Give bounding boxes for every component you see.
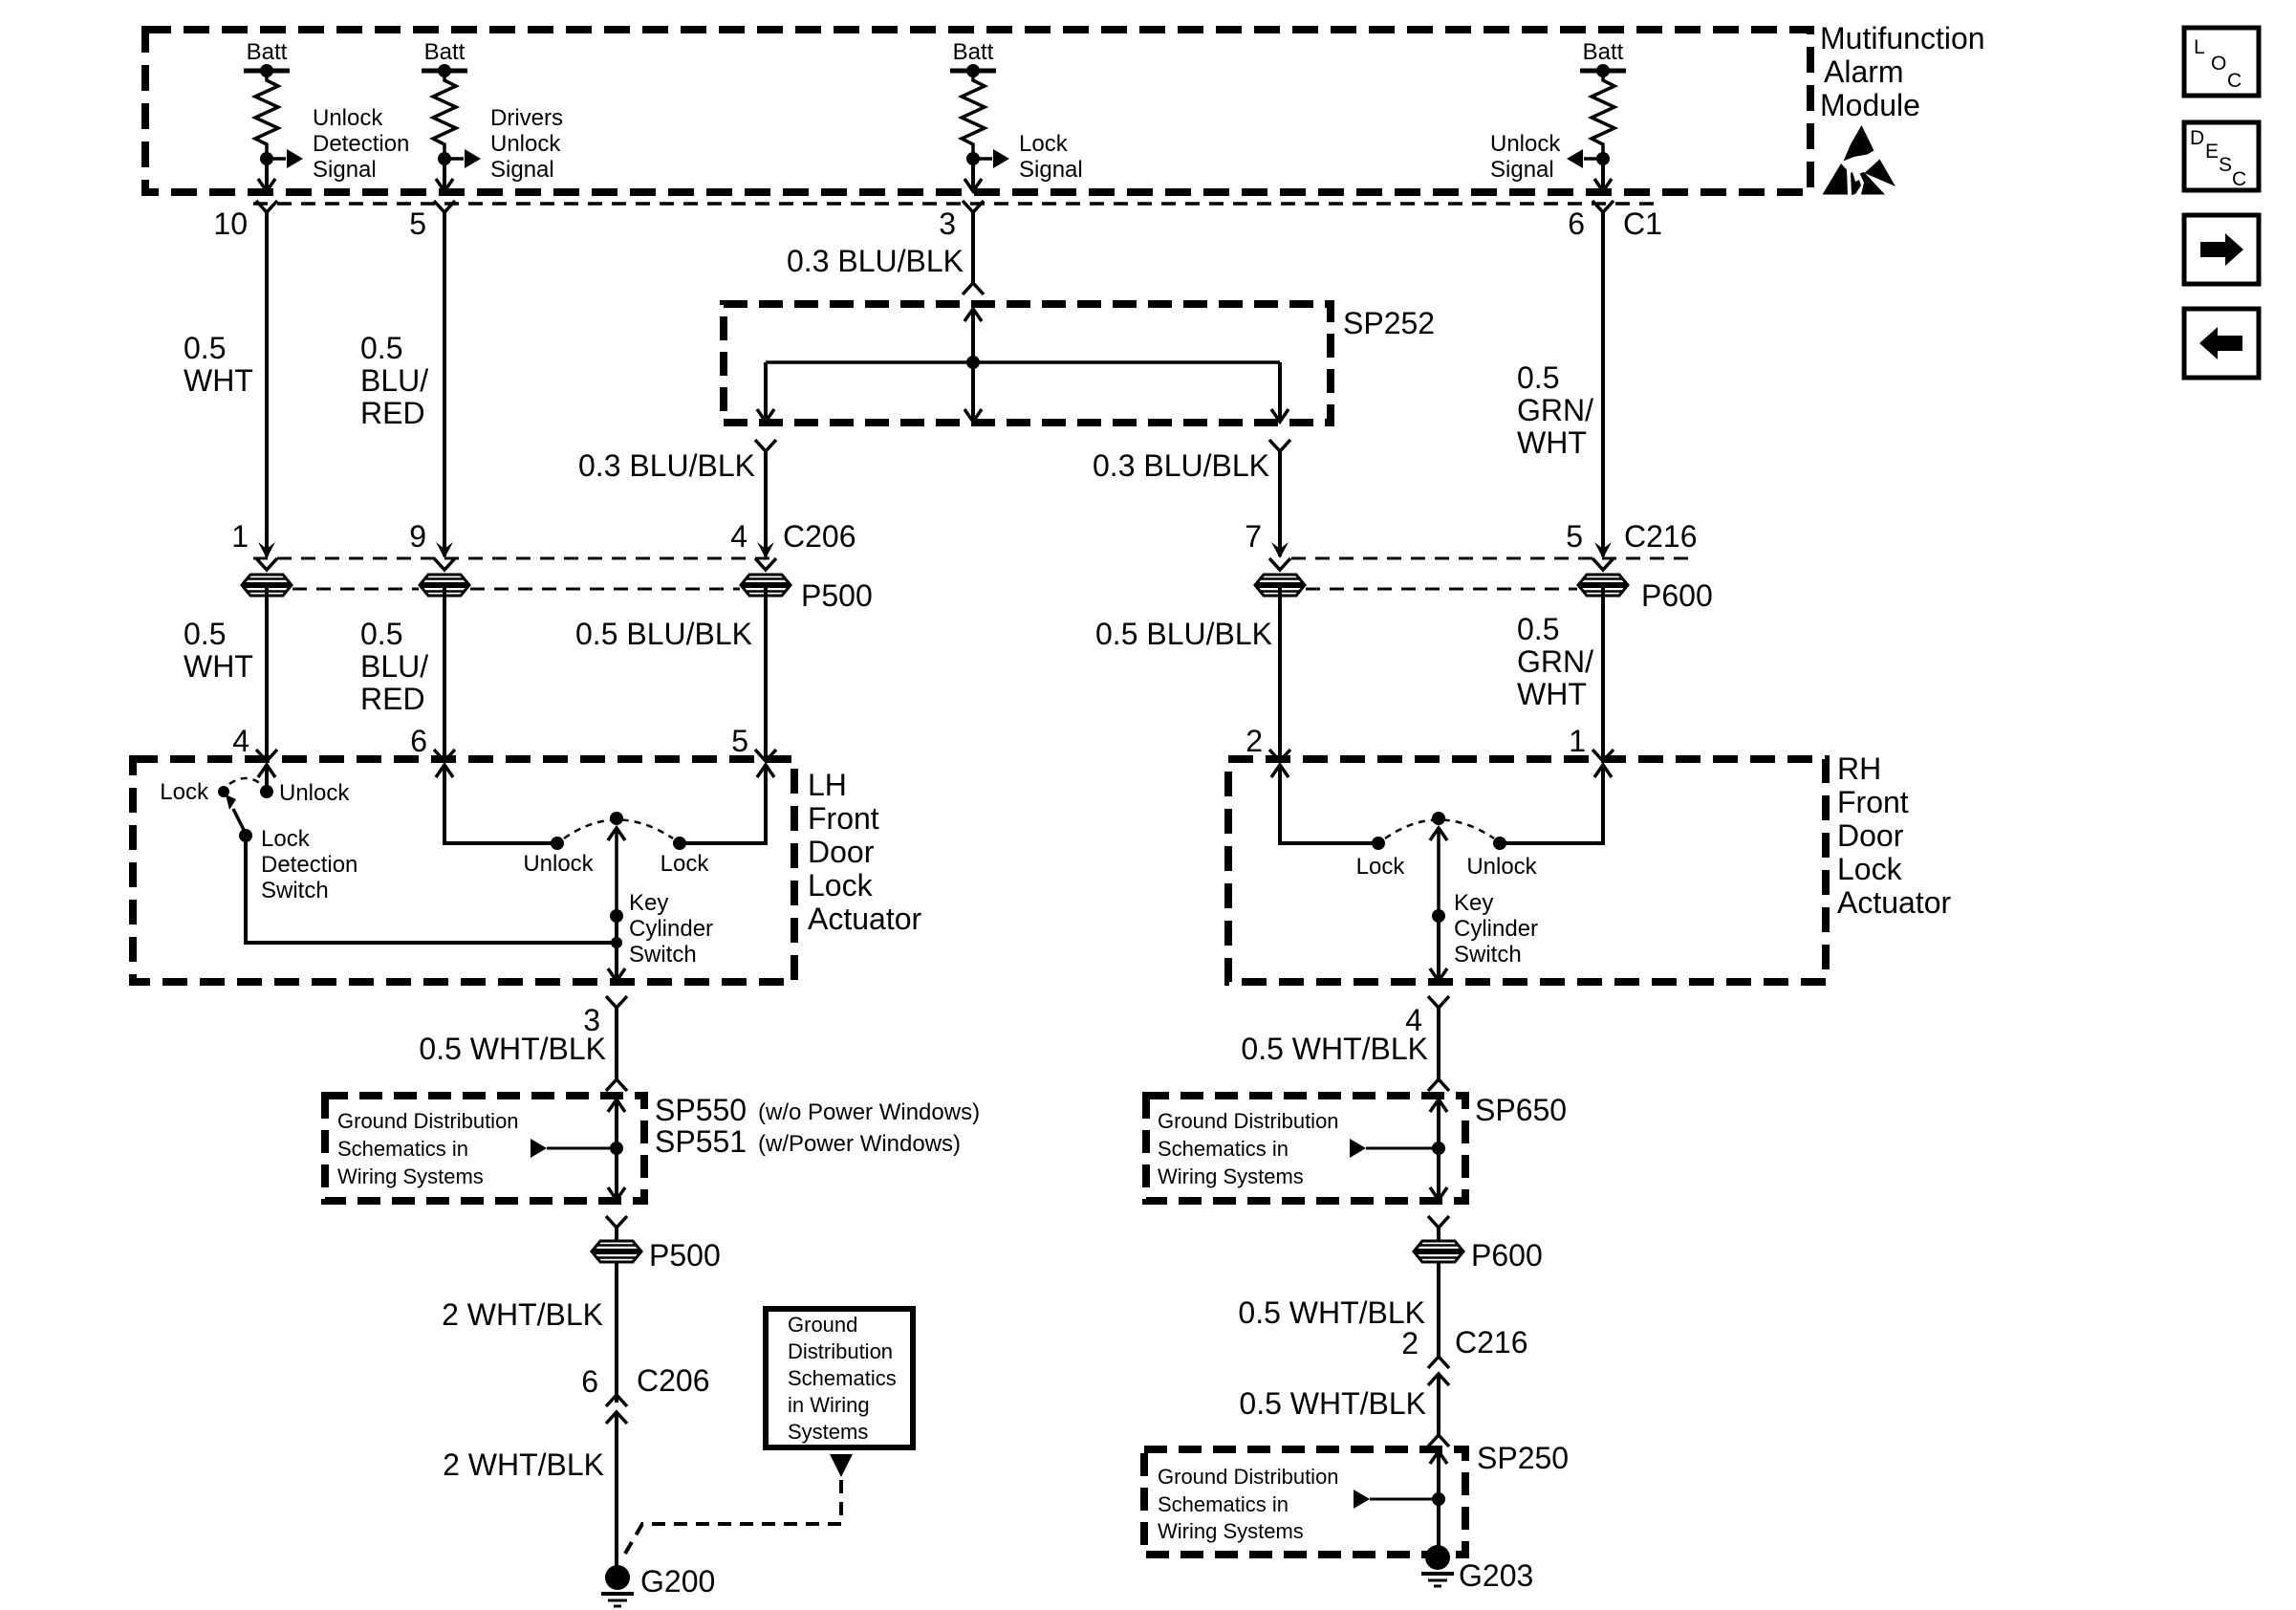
SP252 left branch wire [757,362,774,422]
svg-text:9: 9 [409,519,426,554]
svg-text:RED: RED [360,682,425,716]
LH pin3 chevron below actuator [606,996,627,1008]
svg-text:P600: P600 [1641,578,1713,613]
svg-text:Switch: Switch [629,942,697,968]
legend LOC box [2184,28,2259,96]
svg-text:C: C [2227,70,2242,92]
pin 5 chevron [434,201,455,212]
RH Front Door Lock Actuator box [1228,759,1826,982]
svg-text:2 WHT/BLK: 2 WHT/BLK [443,1447,604,1482]
svg-text:Signal: Signal [1019,157,1083,183]
svg-text:GRN/: GRN/ [1517,393,1593,427]
svg-text:G203: G203 [1459,1558,1533,1593]
Ground Distribution text (SP250 box) [1158,1465,1339,1543]
wire P600 to C216 (0.5 WHT/BLK) [1437,1262,1440,1357]
svg-text:10: 10 [213,207,248,241]
resistor (pull-up from Batt) [962,71,985,159]
LH unlock detection contact [260,785,273,798]
wire P500 to LH pin6 (0.5 BLU/RED) [443,585,446,761]
RH actuator pin 1 chevron [1592,750,1614,761]
svg-text:0.3 BLU/BLK: 0.3 BLU/BLK [787,244,964,278]
resistor (pull-up from Batt) [255,71,278,159]
P500 grommet dashed link [292,588,740,591]
svg-text:Signal: Signal [1490,157,1554,183]
svg-text:WHT: WHT [184,649,253,684]
svg-text:C206: C206 [783,519,856,554]
svg-text:SP250: SP250 [1477,1441,1569,1475]
svg-text:0.5 WHT/BLK: 0.5 WHT/BLK [1238,1295,1425,1330]
RH key cylinder pivot node [1432,909,1445,923]
connector C1 dashed line [253,202,1656,206]
svg-text:WHT: WHT [1517,677,1587,711]
Key Cylinder Switch label (RH) [1454,890,1538,968]
dashed reference branch to ground distribution [625,1480,841,1554]
svg-text:Ground Distribution: Ground Distribution [1158,1109,1339,1133]
svg-text:Door: Door [808,835,875,869]
LH key cylinder apex node [610,812,623,825]
Lock Detection Switch label [261,826,357,903]
svg-text:Schematics: Schematics [788,1366,897,1390]
svg-text:0.5: 0.5 [360,617,402,651]
svg-text:Lock: Lock [808,868,874,903]
svg-text:RH: RH [1837,751,1881,786]
SP550 junction node [610,1142,623,1155]
svg-text:Ground Distribution: Ground Distribution [1158,1465,1339,1489]
svg-text:Signal: Signal [490,157,554,183]
chevron below SP252 left [755,440,776,451]
svg-text:5: 5 [409,207,426,241]
svg-text:4: 4 [730,519,747,554]
svg-text:WHT: WHT [1517,425,1587,460]
svg-text:0.3 BLU/BLK: 0.3 BLU/BLK [578,448,755,483]
chevron below SP550 [606,1216,627,1228]
chevron above SP650 [1428,1079,1449,1091]
RH key cylinder switch arc [1385,820,1494,839]
wire label 0.5 BLU/RED lower [360,617,428,716]
wire P600 to RH pin1 (0.5 GRN/WHT) [1601,585,1605,761]
C206 pin 4 arrow [757,542,774,558]
chevron above SP250 [1428,1435,1449,1447]
svg-text:Cylinder: Cylinder [629,916,713,942]
svg-text:(w/o Power Windows): (w/o Power Windows) [758,1099,980,1125]
wire pin5 to P500 (0.5 BLU/RED) [443,212,446,556]
svg-text:6: 6 [1568,207,1585,241]
svg-text:5: 5 [1566,519,1583,554]
splice SP252 box [724,304,1331,423]
svg-text:Systems: Systems [788,1420,868,1444]
svg-text:Mutifunction: Mutifunction [1820,21,1985,55]
LH pin4 entry arrow [258,765,275,792]
wire to module pin [1594,159,1612,191]
svg-text:Front: Front [1837,785,1909,819]
svg-text:P500: P500 [649,1238,721,1273]
wire SP650 to P600 [1437,1228,1440,1241]
P500 grommet (ground feed) [592,1241,641,1262]
SP252 junction node [966,356,980,369]
SP252 right branch wire [1271,362,1289,422]
svg-text:L: L [2194,36,2205,58]
wire label 0.5 WHT lower [184,617,253,684]
ground G200 [601,1565,634,1606]
svg-text:SP550: SP550 [655,1093,747,1127]
svg-text:Front: Front [808,801,879,836]
svg-text:Unlock: Unlock [490,131,561,157]
svg-text:Unlock: Unlock [279,780,350,806]
svg-text:0.5 WHT/BLK: 0.5 WHT/BLK [1241,1032,1428,1066]
resistor (pull-up from Batt) [1592,71,1614,159]
svg-text:BLU/: BLU/ [360,649,428,684]
C216 pin 5 chevron [1592,558,1614,570]
LH key cylinder Lock contact [673,837,686,850]
C216 pin 5 arrow [1594,542,1612,558]
svg-text:5: 5 [731,724,748,758]
svg-text:C: C [2232,168,2246,190]
P500 grommet wire3 [741,575,791,596]
svg-text:Distribution: Distribution [788,1339,893,1363]
svg-text:2: 2 [1245,724,1263,758]
Ground Distribution text (SP550 box) [337,1109,519,1188]
svg-text:P500: P500 [801,578,873,613]
svg-text:6: 6 [581,1364,598,1399]
svg-text:Module: Module [1820,88,1920,122]
svg-text:7: 7 [1245,519,1262,554]
svg-text:Unlock: Unlock [1490,131,1561,157]
svg-text:3: 3 [939,207,956,241]
svg-text:BLU/: BLU/ [360,363,428,398]
svg-text:2: 2 [1401,1326,1419,1360]
connector C206 dashed line [253,557,776,560]
LH lock detection switch pivot [239,829,252,842]
SP252 entry arrow [964,309,982,362]
LH lock detection switch wire to key cylinder [246,836,617,943]
splice SP650 box (Ground Distribution) [1146,1096,1465,1201]
wire to module pin [436,159,453,191]
pin 6 chevron [1592,201,1614,212]
signal tap arrow [267,149,303,168]
solid box pointer triangle [830,1454,853,1477]
splice SP250 box (Ground Distribution) [1144,1449,1465,1555]
svg-text:0.5 BLU/BLK: 0.5 BLU/BLK [1095,617,1272,651]
LH lock detection switch arc [229,778,261,784]
svg-text:in Wiring: in Wiring [788,1393,870,1417]
node (junction dot) [1596,152,1610,165]
SP250 entry arrow [1430,1451,1447,1551]
C216 pin 7 arrow [1271,542,1289,558]
LH common junction node [611,937,622,948]
RH actuator pin 2 chevron [1269,750,1290,761]
LH common wire to pin3 [608,916,625,981]
svg-text:Key: Key [629,890,668,916]
svg-text:Alarm: Alarm [1824,54,1904,89]
pin 10 chevron [256,201,277,212]
svg-text:Actuator: Actuator [1837,885,1952,920]
svg-text:SP650: SP650 [1475,1093,1567,1127]
wire pin10 to P500 (0.5 WHT) [265,212,269,556]
svg-text:Batt: Batt [247,39,288,65]
wire P500 to LH pin5 (0.5 BLU/BLK) [764,585,768,761]
wire P500 to LH pin4 (0.5 WHT) [265,585,269,761]
svg-text:SP252: SP252 [1343,306,1435,340]
node (junction dot) [260,152,273,165]
LH actuator pin 6 chevron [434,750,455,761]
LH actuator pin 4 chevron [256,750,277,761]
svg-text:LH: LH [808,768,847,802]
LH key cylinder switch arc [564,820,673,839]
C206 pin 1 arrow [258,542,275,558]
svg-text:Schematics in: Schematics in [337,1137,468,1161]
Batt supply bar [244,64,290,77]
svg-text:Door: Door [1837,818,1904,853]
svg-text:C216: C216 [1624,519,1698,554]
SP550 pointer triangle [531,1139,617,1158]
svg-text:C1: C1 [1623,207,1662,241]
Mutifunction Alarm Module box [145,30,1810,192]
svg-text:Lock: Lock [261,826,311,852]
C206 pin 1 chevron [256,558,277,570]
RH pin1 entry arrow and wire to Unlock contact [1500,765,1612,843]
node (junction dot) [966,152,980,165]
svg-text:Ground Distribution: Ground Distribution [337,1109,519,1133]
LH key cylinder lever arrow [608,828,625,916]
svg-text:Key: Key [1454,890,1493,916]
svg-text:(w/Power Windows): (w/Power Windows) [758,1131,961,1157]
wire label 0.5 BLU/RED [360,331,428,430]
svg-text:2 WHT/BLK: 2 WHT/BLK [442,1297,603,1332]
chevron above SP550 [606,1079,627,1091]
wire C216 to SP250 (0.5 WHT/BLK) [1437,1374,1440,1435]
svg-text:Actuator: Actuator [808,902,922,936]
chevron below SP650 [1428,1216,1449,1228]
LH Front Door Lock Actuator box [133,759,794,982]
Mutifunction Alarm Module label [1820,21,1985,122]
Lock Signal label [1019,131,1083,183]
svg-text:1: 1 [1569,724,1586,758]
svg-text:GRN/: GRN/ [1517,644,1593,679]
signal tap arrow [1567,149,1603,168]
svg-text:Batt: Batt [1583,39,1624,65]
LH Lock contact [218,786,229,797]
svg-text:Signal: Signal [313,157,377,183]
svg-text:Batt: Batt [953,39,994,65]
LH actuator pin 5 chevron [755,750,776,761]
svg-text:1: 1 [231,519,249,554]
svg-text:Ground: Ground [788,1313,857,1337]
svg-text:Unlock: Unlock [1466,854,1537,880]
legend DESC box [2184,122,2259,190]
SP250 junction node [1432,1492,1445,1506]
svg-text:SP551: SP551 [655,1124,747,1159]
C206 pin 4 chevron [755,558,776,570]
RH common wire to pin4 [1430,916,1447,981]
wire break chevron above SP252 [963,283,984,294]
P600 grommet wire7 [1255,575,1305,596]
C206 inline connector chevrons [606,1395,627,1424]
SP650 entry arrow [1430,1099,1447,1200]
LH pin6 entry arrow and wire to Unlock contact [436,765,557,843]
LH lock detection switch lever [226,794,246,834]
RH pin2 entry arrow and wire to Lock contact [1271,765,1378,843]
wire P500 to C206 (2 WHT/BLK) [615,1262,618,1403]
LH pin5 entry arrow and wire to Lock contact [680,765,774,843]
wire SP252 to C206 pin4 (0.3 BLU/BLK) [764,451,768,556]
P600 grommet (ground feed) [1414,1241,1463,1262]
svg-text:WHT: WHT [184,363,253,398]
SP252 bus wire [766,360,1280,364]
svg-text:0.5 WHT/BLK: 0.5 WHT/BLK [1239,1386,1426,1421]
svg-text:Wiring Systems: Wiring Systems [1158,1519,1304,1543]
svg-text:Lock: Lock [1019,131,1069,157]
P600 grommet wire5 [1578,575,1628,596]
svg-text:Lock: Lock [661,851,710,877]
svg-text:Wiring Systems: Wiring Systems [337,1164,484,1188]
P600 grommet dashed link [1306,588,1577,591]
svg-text:C206: C206 [637,1363,710,1398]
Unlock Signal label [1490,131,1561,183]
svg-text:Wiring Systems: Wiring Systems [1158,1164,1304,1188]
pin 3 chevron [963,201,984,212]
RH key cylinder apex node [1432,812,1445,825]
SP250 pointer triangle [1354,1490,1439,1509]
svg-text:0.5: 0.5 [1517,360,1559,395]
wire label 0.5 GRN/WHT [1517,360,1593,460]
svg-text:Cylinder: Cylinder [1454,916,1538,942]
RH key cylinder lever arrow [1430,828,1447,916]
C216 inline connector chevrons [1428,1357,1449,1385]
Ground Distribution text (SP650 box) [1158,1109,1339,1188]
svg-text:0.5 WHT/BLK: 0.5 WHT/BLK [419,1032,606,1066]
wire pin4 to SP650 (0.5 WHT/BLK) [1437,1008,1440,1079]
SP252 middle exit arrow [964,362,982,422]
RH actuator label [1837,751,1952,920]
svg-text:Detection: Detection [261,852,357,878]
svg-text:0.3 BLU/BLK: 0.3 BLU/BLK [1093,448,1269,483]
Ground Distribution Schematics text [788,1313,897,1444]
P500 grommet wire2 [420,575,469,596]
svg-text:0.5 BLU/BLK: 0.5 BLU/BLK [575,617,752,651]
svg-text:0.5: 0.5 [184,617,226,651]
wire to module pin [258,159,275,191]
wire P600 to RH pin2 (0.5 BLU/BLK) [1278,585,1282,761]
Batt supply bar [422,64,467,77]
svg-text:Switch: Switch [261,878,329,903]
ground G203 [1421,1545,1454,1586]
ESD sensitivity symbol [1823,125,1896,195]
wire C206 to G200 (2 WHT/BLK) [615,1412,618,1568]
LH actuator label [808,768,922,936]
svg-text:O: O [2211,53,2226,75]
svg-text:RED: RED [360,396,425,430]
svg-text:Unlock: Unlock [313,105,383,131]
resistor (pull-up from Batt) [433,71,456,159]
RH key cylinder Lock contact [1372,837,1385,850]
svg-text:Detection: Detection [313,131,409,157]
svg-text:Lock: Lock [1356,854,1406,880]
splice SP550/SP551 box (Ground Distribution) [325,1096,644,1201]
wire to module pin [964,159,982,191]
Unlock Detection Signal label [313,105,409,183]
signal tap arrow [973,149,1009,168]
Drivers Unlock Signal label [490,105,563,183]
connector C216 dashed line [1291,557,1688,560]
svg-text:Switch: Switch [1454,942,1522,968]
C206 pin 9 chevron [434,558,455,570]
LH key cylinder Unlock contact [551,837,564,850]
wire pin3 to SP550 (0.5 WHT/BLK) [615,1008,618,1079]
wire SP550 to P500 [615,1228,618,1241]
SP650 junction node [1432,1142,1445,1155]
svg-text:Schematics in: Schematics in [1158,1137,1289,1161]
SP650 pointer triangle [1350,1139,1439,1158]
Ground Distribution Schematics solid box [766,1309,913,1447]
svg-text:0.5: 0.5 [184,331,226,365]
svg-text:S: S [2219,154,2232,176]
svg-text:Drivers: Drivers [490,105,563,131]
P500 grommet wire1 [242,575,292,596]
svg-text:6: 6 [410,724,427,758]
C206 pin 9 arrow [436,542,453,558]
node (junction dot) [438,152,451,165]
svg-text:Unlock: Unlock [523,851,594,877]
svg-text:0.5: 0.5 [360,331,402,365]
Batt supply bar [950,64,996,77]
RH pin4 chevron below actuator [1428,996,1449,1008]
wire pin3 to SP252 (0.3 BLU/BLK) [971,212,975,283]
wire label 0.5 WHT [184,331,253,398]
legend right-arrow box [2184,215,2259,284]
wire pin6 C1 to P600 (0.5 GRN/WHT) [1601,212,1605,556]
svg-text:Lock: Lock [160,779,209,805]
wire SP252 to pin7 (0.3 BLU/BLK) [1278,451,1282,556]
svg-text:E: E [2205,141,2219,163]
svg-text:C216: C216 [1455,1325,1528,1360]
LH key cylinder pivot node [610,909,623,923]
C216 pin 7 chevron [1269,558,1290,570]
signal tap arrow [444,149,481,168]
RH key cylinder Unlock contact [1493,837,1506,850]
svg-text:Schematics in: Schematics in [1158,1492,1289,1516]
chevron below SP252 right [1269,440,1290,451]
Key Cylinder Switch label (LH) [629,890,713,968]
svg-text:G200: G200 [640,1564,715,1599]
legend left-arrow box [2184,309,2259,378]
svg-text:D: D [2190,127,2204,149]
svg-text:4: 4 [232,724,249,758]
SP550 entry arrow [608,1099,625,1200]
wire label 0.5 GRN/WHT lower [1517,612,1593,711]
svg-text:P600: P600 [1471,1238,1543,1273]
svg-text:0.5: 0.5 [1517,612,1559,646]
Batt supply bar [1580,64,1626,77]
svg-text:Batt: Batt [424,39,466,65]
svg-text:Lock: Lock [1837,852,1903,886]
